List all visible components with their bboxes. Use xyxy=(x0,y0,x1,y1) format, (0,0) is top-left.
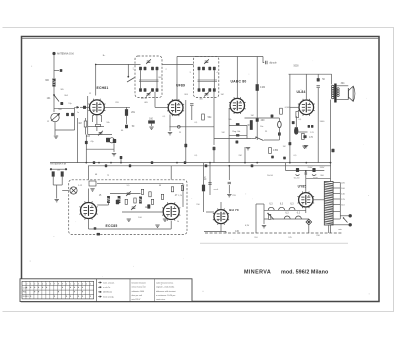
svg-text:465 kc: 465 kc xyxy=(141,98,147,100)
wire osc grid lead xyxy=(96,115,98,131)
resistor R11 FM xyxy=(52,172,54,177)
coil T2 coil f xyxy=(202,88,205,92)
resistor R20 xyxy=(302,133,305,139)
dial lamp lamp 5 xyxy=(295,216,301,219)
capacitor bus cap 3 xyxy=(151,161,153,164)
det col cont xyxy=(213,147,215,163)
resistor R9 xyxy=(269,148,272,154)
capacitor bus cap 8 xyxy=(251,164,254,167)
transformer tap lines xyxy=(333,183,340,220)
wire BH70 drop1 xyxy=(209,163,211,195)
coil FM coil 1 xyxy=(107,196,110,203)
wire UY85 anode wire xyxy=(313,199,324,201)
wire ECC85a grid drop xyxy=(88,189,90,203)
capacitor C30 cathode xyxy=(303,135,306,138)
wire speaker wire bottom xyxy=(337,99,349,101)
ground ground UF89 xyxy=(168,133,172,135)
wire transformer bottom drop xyxy=(328,225,330,233)
wire drop under UF89 xyxy=(185,100,187,163)
wire pin stub 2 xyxy=(101,115,103,122)
wire tuning top wire xyxy=(54,107,75,109)
svg-text:5M: 5M xyxy=(222,132,225,134)
wire vol right drop xyxy=(246,126,248,139)
wire T2 left link xyxy=(198,70,200,88)
trimmer FM trim 2 xyxy=(131,205,136,210)
wire C13 lead xyxy=(278,118,280,121)
node bus node 6 xyxy=(305,162,307,164)
svg-text:Com. unicam.: Com. unicam. xyxy=(103,282,115,284)
wire ECH81 plate riser xyxy=(95,64,97,95)
legend divider 2 xyxy=(129,279,131,302)
capacitor bus cap 2 xyxy=(120,156,123,159)
wire output transformer riser xyxy=(331,74,333,84)
resistor R4 xyxy=(202,114,205,120)
resistor R18 xyxy=(280,108,283,114)
electrolytic capacitor C25 filter xyxy=(296,168,299,172)
electrolytic capacitor C26 filter xyxy=(312,168,315,172)
C14 electrolytic xyxy=(294,128,298,134)
wire lamp row wire xyxy=(264,209,306,211)
tube UABC80 xyxy=(229,97,246,114)
wire T2 out drop xyxy=(213,92,215,100)
terminal P2 xyxy=(349,223,352,226)
capacitor C8 xyxy=(256,118,259,121)
coil T1 coil d xyxy=(156,67,159,71)
coil T1 coil a xyxy=(139,67,142,71)
node bus dot f xyxy=(330,162,332,164)
trimmer T2 trim top xyxy=(204,59,209,64)
phono jack xyxy=(306,219,312,225)
ground FM gnd 2 xyxy=(155,225,159,227)
wire screen drop xyxy=(85,135,87,163)
wire T1 right link xyxy=(156,70,158,88)
table row labels xyxy=(23,287,29,298)
padder trimmer xyxy=(127,78,135,83)
coil T1 coil c xyxy=(151,67,154,71)
T3 secondary winding xyxy=(337,88,339,90)
wire drop under T2 xyxy=(213,100,215,139)
switch mains fuse switch xyxy=(343,217,348,222)
wire tap bus xyxy=(339,183,341,220)
wire T2 right link xyxy=(213,70,215,88)
wire IF link wire mid xyxy=(162,64,177,66)
wire UABC left drop xyxy=(228,108,230,163)
shield box FM tuner unit xyxy=(69,180,187,235)
wire pin stub 1 xyxy=(92,115,94,122)
tube ECH81 xyxy=(88,99,105,116)
wire BH70 out drop xyxy=(225,232,227,234)
wire AVC drop xyxy=(76,118,78,163)
wire FM wire 3 xyxy=(122,211,163,213)
variable capacitor C1 xyxy=(51,113,60,121)
wire osc mid wire xyxy=(88,126,104,128)
node antenna node xyxy=(53,94,55,96)
wire UF89 plate riser xyxy=(176,57,178,101)
svg-text:FONO: FONO xyxy=(23,296,29,298)
T3 primary winding xyxy=(331,85,334,88)
antenna AM terminal xyxy=(52,52,55,55)
trimmer FM trim 1 xyxy=(126,191,131,196)
node plate feed node xyxy=(95,64,97,66)
wire UL84 plate wire xyxy=(289,73,332,75)
node rect node xyxy=(305,170,307,172)
coil FM coil 3 xyxy=(139,197,142,204)
wire BH70 out wire xyxy=(204,231,226,233)
resistor R27 FM xyxy=(181,186,183,191)
wire R16 drop2 xyxy=(203,191,205,212)
capacitor FM junction xyxy=(94,227,97,230)
fold line xyxy=(200,242,348,244)
svg-text:0.5M: 0.5M xyxy=(273,150,278,152)
resistor FM input box xyxy=(89,181,96,186)
node R1 top dot xyxy=(127,76,129,78)
wire tuning lead xyxy=(53,95,55,112)
wire lamp feed xyxy=(263,204,265,210)
C13 electrolytic xyxy=(278,121,282,127)
legend divider 3 xyxy=(154,279,156,302)
dial lamp lamp 1 xyxy=(268,207,274,210)
wire AF rail xyxy=(289,74,291,162)
capacitor C23 xyxy=(208,183,211,185)
capacitor bus cap 1 xyxy=(105,164,107,167)
capacitor C13b xyxy=(278,132,281,135)
node bus node 2 xyxy=(176,162,178,164)
wire det column xyxy=(213,139,215,146)
coil L1 antenna coil xyxy=(52,79,55,87)
volume potentiometer R8 xyxy=(248,121,253,130)
wire lamp feed drop xyxy=(255,204,257,233)
svg-text:ANTENNA F.M: ANTENNA F.M xyxy=(50,163,66,166)
wire BH70 out xyxy=(220,224,222,232)
wire antenna coil lead xyxy=(53,87,55,96)
wire osc coil drop xyxy=(113,143,115,152)
capacitor C17 bypass b xyxy=(311,125,313,128)
capacitor R6 xyxy=(236,123,240,125)
capacitor C4 coupling xyxy=(83,106,86,109)
coil T1 coil f xyxy=(144,88,147,92)
wire osc link wire xyxy=(86,148,114,150)
wire FM drop a xyxy=(88,219,90,229)
node bus node 5 xyxy=(256,162,258,164)
osc coil circle xyxy=(109,138,114,143)
speaker LS1 xyxy=(348,86,355,101)
resistor R13 FM xyxy=(125,199,127,204)
ground vol ground xyxy=(246,148,250,150)
ground ground R3 xyxy=(149,127,153,129)
shield box IF transformer T2 xyxy=(194,56,219,97)
capacitor bus cap 5 xyxy=(93,161,95,164)
coil L6 FM coil xyxy=(147,204,150,208)
wire terminal wire2 xyxy=(333,224,348,226)
ground FM input ground xyxy=(90,189,94,191)
wire ECH81 grid wire xyxy=(80,106,90,108)
shield box IF transformer T1 xyxy=(135,56,162,98)
capacitor C11 xyxy=(271,156,274,159)
wire ECC85a top xyxy=(88,166,90,180)
svg-text:0,5M: 0,5M xyxy=(285,107,290,109)
switch S2 AV switch xyxy=(255,137,263,141)
capacitor C5 xyxy=(125,125,128,128)
wire FM wire 5 xyxy=(108,203,110,205)
svg-text:250V: 250V xyxy=(308,167,313,169)
tuning gang xyxy=(70,187,77,194)
trimmer osc trimmer xyxy=(98,131,103,136)
table grid lines xyxy=(22,281,94,299)
svg-text:1,2k: 1,2k xyxy=(178,195,182,197)
wire FM drop2 xyxy=(61,176,63,185)
coil T2 coil a xyxy=(198,67,201,71)
svg-text:F.M.: F.M. xyxy=(23,292,27,294)
wire UABC plate riser xyxy=(256,57,258,141)
svg-text:1M: 1M xyxy=(78,123,81,125)
wire BH70 top stub xyxy=(220,202,222,210)
capacitor C24 xyxy=(228,182,231,184)
svg-text:ECH81: ECH81 xyxy=(97,86,109,90)
wire FM bottom wire xyxy=(89,228,172,230)
drawing frame xyxy=(22,37,380,302)
coil L5 FM coil xyxy=(116,200,119,204)
coil T1 coil e xyxy=(139,88,142,92)
dial lamp lamp 2 xyxy=(279,207,285,210)
tube BH70 xyxy=(213,209,229,225)
terminal P1 xyxy=(349,214,352,217)
wire FM drop b xyxy=(170,221,172,229)
svg-text:ANTENNA O.M.: ANTENNA O.M. xyxy=(57,53,74,56)
trimmer T1 trim top xyxy=(146,59,151,64)
wire terminal wire1 xyxy=(340,215,348,217)
table header digits xyxy=(26,284,92,286)
wire C16 column xyxy=(317,88,319,163)
wire UF89 cathode drop xyxy=(169,115,171,132)
resistor R24 FM xyxy=(151,199,153,204)
table switch marks xyxy=(26,287,91,297)
wire tuning bottom wire xyxy=(55,129,75,131)
capacitor C19 xyxy=(213,147,216,150)
tube UY85 xyxy=(298,192,315,209)
coil L3 osc coil xyxy=(113,139,116,143)
switch mains switch xyxy=(267,213,274,220)
T2 core xyxy=(198,80,218,81)
capacitor C9 xyxy=(236,141,239,144)
power transformer T4 xyxy=(324,182,333,226)
wire plate feed wire xyxy=(96,63,141,65)
coil T2 coil c xyxy=(208,67,211,71)
frame top double line xyxy=(22,37,380,39)
node bus dot d xyxy=(244,162,246,164)
wire C6 drop xyxy=(191,106,193,120)
ground ground FM xyxy=(55,200,59,202)
svg-text:1M: 1M xyxy=(221,94,224,96)
wire ECH81 out wire xyxy=(104,106,130,108)
dial lamp lamp 3 xyxy=(289,207,295,210)
wire antenna lead xyxy=(53,55,55,78)
wire UY85 heater link xyxy=(306,177,331,179)
capacitor bus cap 4 xyxy=(184,161,186,164)
wire R2 lead xyxy=(85,118,87,121)
wire vol wire 2 xyxy=(229,134,247,136)
node bus node 4 xyxy=(228,165,230,167)
wire lamp left drop xyxy=(263,210,265,224)
supply rail bottom xyxy=(205,232,342,234)
wire UABC gnd drop xyxy=(244,147,246,163)
svg-text:1M: 1M xyxy=(251,115,254,117)
ground BH70 gnd xyxy=(227,195,231,197)
wire FM top wire xyxy=(97,182,183,184)
dial lamp lamp 4 xyxy=(284,216,290,219)
ground ground osc xyxy=(112,154,116,156)
wire BH70 drop2 xyxy=(228,166,230,180)
wire R2 lead2 xyxy=(85,127,87,135)
svg-text:6,3V: 6,3V xyxy=(245,225,250,227)
wire UL84 cathode wire xyxy=(296,131,307,133)
wire ECH81 left drop xyxy=(87,96,89,135)
tube ECC85 a xyxy=(79,201,97,219)
wire UY85 down xyxy=(305,207,307,213)
resistor R19 xyxy=(296,112,299,118)
capacitor C27 xyxy=(271,115,274,118)
wire IF link wire mid2 xyxy=(177,64,194,66)
wire R1 lead xyxy=(126,107,128,109)
coil T2 coil b xyxy=(202,67,205,71)
resistor R17 lamp xyxy=(268,214,270,219)
table grid box xyxy=(22,281,94,299)
wire B+ rail xyxy=(330,100,332,234)
svg-text:50+50: 50+50 xyxy=(267,175,274,177)
capacitor FM edge part xyxy=(97,233,100,236)
node FM ant node1 xyxy=(50,168,52,170)
T1 core xyxy=(139,80,159,81)
wire UL84 grid riser xyxy=(305,74,307,100)
capacitor C12 xyxy=(283,157,286,160)
wire R16 drop xyxy=(203,163,205,185)
svg-text:oscil.: oscil. xyxy=(214,189,219,191)
title block outer xyxy=(20,279,192,302)
resistor R23 FM xyxy=(149,192,151,197)
svg-text:e resistenze: 10-20 per: e resistenze: 10-20 per xyxy=(156,294,176,297)
svg-text:tolleranza sulle tensioni: tolleranza sulle tensioni xyxy=(156,290,176,293)
capacitor R7 xyxy=(236,134,239,136)
wire lamp row 2 wire xyxy=(264,218,309,220)
capacitor C7 top xyxy=(266,61,268,64)
wire FM wire 1 xyxy=(97,204,108,206)
wire R1 top stub xyxy=(127,64,129,76)
wire C13 lead2 xyxy=(278,128,280,140)
wire FM into box xyxy=(62,190,68,192)
wire UF89 cathode wire xyxy=(169,126,214,128)
svg-text:rete 220 V: rete 220 V xyxy=(132,298,141,301)
capacitor bus cap 7 xyxy=(205,164,208,167)
svg-text:0.2M: 0.2M xyxy=(260,87,265,89)
resistor R14 FM xyxy=(134,198,136,203)
wire T1 to UF89 xyxy=(155,106,168,108)
node bus dot a xyxy=(85,162,87,164)
resistor R5 plate load xyxy=(256,85,259,91)
wire chassis bus 1 xyxy=(50,162,331,164)
coil T2 coil g xyxy=(208,88,211,92)
wire T1 out drop xyxy=(154,92,156,108)
capacitor C29 screen xyxy=(85,141,88,144)
svg-text:segnale - onda media: segnale - onda media xyxy=(156,287,175,289)
resistor R22 FM xyxy=(141,189,143,194)
ground FM gnd 3 xyxy=(163,219,167,221)
capacitor C2b padder xyxy=(71,113,74,116)
resistor R12 FM xyxy=(61,172,63,177)
svg-text:= o.le To: = o.le To xyxy=(103,287,110,289)
capacitor C3 padder xyxy=(60,102,63,105)
capacitor bus cap 6 xyxy=(129,164,131,167)
resistor R2 xyxy=(84,121,87,127)
C26 polarity arc xyxy=(312,175,316,176)
ground lamp gnd xyxy=(262,226,266,228)
antenna cap stub xyxy=(54,70,59,72)
wire FM drop1 xyxy=(52,176,54,185)
svg-text:Reg. Vol.: Reg. Vol. xyxy=(232,131,241,133)
svg-text:tensioni misurate: tensioni misurate xyxy=(132,281,146,284)
wire R1 lead2 xyxy=(126,116,128,125)
svg-text:UABC 80: UABC 80 xyxy=(231,80,247,84)
wire rect wire xyxy=(286,170,325,172)
bus cap 2 lead xyxy=(120,159,122,163)
capacitor C6 xyxy=(190,104,193,106)
wire tuning right drop xyxy=(74,108,76,130)
wire C16 lead xyxy=(317,74,319,78)
coil T1 coil h xyxy=(156,88,159,92)
wire speaker wire top xyxy=(337,85,349,87)
svg-text:265V: 265V xyxy=(320,167,325,169)
wire R3 drop xyxy=(151,123,153,126)
svg-text:voltmetro 1000: voltmetro 1000 xyxy=(132,290,145,293)
test point xyxy=(177,125,180,128)
wire FM ant link xyxy=(51,168,66,170)
wire UY85 top lead xyxy=(305,171,307,193)
wire det link xyxy=(214,138,251,140)
ground FM gnd 1 xyxy=(127,219,131,221)
tube ECC85 b xyxy=(162,202,180,220)
svg-text:UL84: UL84 xyxy=(296,90,305,94)
wire heater bus xyxy=(88,165,331,167)
resistor R1 xyxy=(125,110,128,116)
coil T2 coil h xyxy=(213,88,216,92)
wire UABC out wire xyxy=(245,117,280,119)
svg-text:cento circa: cento circa xyxy=(156,298,166,301)
svg-text:50+50: 50+50 xyxy=(294,178,301,180)
svg-text:inizio avvolg.: inizio avvolg. xyxy=(103,296,114,298)
tube UL84 xyxy=(298,99,315,116)
wire tuning cap lead xyxy=(54,122,56,135)
node bus node 1 xyxy=(98,162,100,164)
resistor R10 cathode xyxy=(295,128,298,134)
wire jack drop xyxy=(308,225,310,233)
capacitor C28 xyxy=(292,121,295,124)
wire UL84 grid wire xyxy=(290,106,299,108)
resistor R21 grid xyxy=(96,124,101,126)
wire C25 drop xyxy=(285,163,287,171)
svg-text:1n: 1n xyxy=(77,112,79,114)
wire UL84 cathode drop xyxy=(295,116,297,127)
C25 polarity arc xyxy=(296,175,300,176)
coil T2 coil e xyxy=(198,88,201,92)
svg-text:ohm per volt: ohm per volt xyxy=(132,294,143,297)
legend text mid xyxy=(103,282,115,298)
capacitor C17 bypass a xyxy=(308,125,310,128)
svg-text:identificato: identificato xyxy=(103,291,112,294)
node bus dot c xyxy=(120,162,122,164)
capacitor C16 plate xyxy=(317,86,320,88)
wire vol wire 1 xyxy=(229,125,247,127)
wire FM wire 2 xyxy=(110,193,141,195)
wire T1 left link xyxy=(140,70,142,88)
wire BH70 in xyxy=(206,211,214,213)
